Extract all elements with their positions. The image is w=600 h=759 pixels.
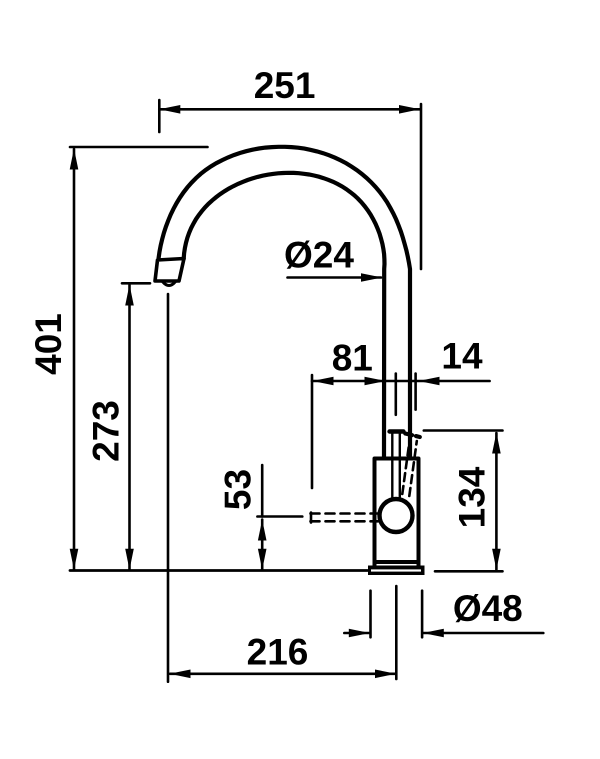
arrow 134 down (492, 549, 501, 570)
arrow 251 left (159, 105, 180, 114)
faucet body outline (375, 459, 419, 566)
arrow 273 up (125, 285, 134, 306)
svg-text:81: 81 (332, 338, 373, 379)
arrow 216 right (375, 670, 396, 679)
faucet centre extension (395, 586, 398, 679)
dashed horizontal lever end cap (310, 513, 313, 523)
arrowheads (70, 105, 501, 678)
dim 273 top extension (122, 282, 150, 285)
dim 134 top extension (424, 429, 503, 432)
base flange (368, 566, 425, 576)
arrow o24 right (361, 273, 382, 282)
dim 134 line (495, 433, 498, 570)
svg-text:216: 216 (247, 632, 309, 673)
svg-text:134: 134 (452, 466, 493, 528)
dim o48 line left (344, 632, 369, 635)
arrow 134 up (492, 433, 501, 454)
dim 251 line (159, 108, 420, 111)
svg-text:251: 251 (254, 65, 316, 106)
dim 81 center stub (394, 374, 397, 415)
dim 216 line (170, 672, 396, 675)
handle rod (392, 433, 400, 500)
dim 81-14 line (312, 380, 490, 383)
handle ball joint (380, 499, 413, 532)
svg-text:14: 14 (441, 336, 483, 377)
handle rod top cap (390, 429, 404, 433)
dim 273 line (128, 285, 131, 570)
spout outlet mound (163, 282, 176, 286)
dim 251 extension left (158, 100, 161, 132)
svg-text:Ø24: Ø24 (284, 235, 354, 276)
dimension lines (70, 100, 543, 682)
dim o24 leader (288, 276, 382, 279)
arrow 401 up (70, 149, 79, 170)
arrow 216 left (170, 670, 191, 679)
dashed horizontal lever position (311, 514, 380, 522)
faucet spout outer curve (159, 147, 410, 457)
arrow 14 left (419, 377, 440, 386)
dim 216 extension left (167, 294, 170, 682)
floor line (70, 569, 368, 572)
svg-text:53: 53 (218, 469, 259, 510)
dim 14 stub (414, 374, 417, 410)
dim 53 tick (257, 515, 302, 518)
dashed tilted lever cap (405, 434, 420, 438)
arrow 81 left (313, 377, 334, 386)
arrow o48 left-seg right (349, 629, 370, 638)
dim 251 extension right (420, 104, 423, 269)
faucet spout inner curve (184, 173, 385, 457)
arrow 81 right (365, 377, 386, 386)
arrow 251 right (399, 105, 420, 114)
dim o48 extension left (369, 591, 372, 638)
arrow 53 down (258, 549, 267, 570)
dim o48 extension right (421, 591, 424, 638)
dim 401 line (73, 149, 76, 570)
svg-text:273: 273 (86, 400, 127, 462)
dim 81 extension (311, 375, 314, 488)
dashed tilted lever position (402, 439, 417, 496)
dim 53 leader (261, 465, 264, 517)
arrow o48 right-seg left (423, 629, 444, 638)
dim 401 top extension (70, 146, 208, 149)
dim 53 shaft (261, 520, 264, 570)
svg-text:Ø48: Ø48 (453, 588, 523, 629)
svg-text:401: 401 (28, 313, 69, 375)
spout tip aerator cap (155, 259, 184, 282)
dim 134 bottom extension (435, 570, 503, 573)
arrow 401 down (70, 549, 79, 570)
arrow 273 down (125, 549, 134, 570)
dim o48 line right (423, 632, 543, 635)
arrow 53 up (258, 520, 267, 541)
